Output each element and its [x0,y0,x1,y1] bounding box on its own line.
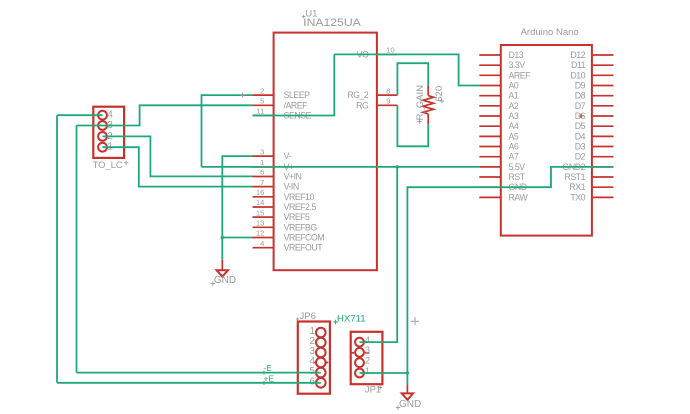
Arduino right pin D3 stub [592,146,614,148]
JP6 name anchor cross [296,318,299,321]
wire VO to A0 [334,54,479,85]
JP6 origin tick left [314,362,316,364]
svg-text:RX1: RX1 [569,182,585,192]
Arduino left pin A0 stub [479,85,501,87]
svg-text:RG_2: RG_2 [347,90,369,100]
U1 pin 15 VREF5 stub [253,216,274,218]
Arduino right pin D6 stub [592,115,614,117]
Arduino left pin A6 stub [479,146,501,148]
ground GND2 cross [396,405,400,409]
Arduino left pin A2 stub [479,105,501,107]
junction cross on SLEEP wire [240,93,245,98]
JP6 pin 4 pad [316,358,326,368]
TO_LC pin 1 pad [98,143,107,152]
wire TO_LC pin4 horizontal [57,114,103,116]
Arduino left pin RAW stub [479,196,501,198]
Arduino right pin D5 stub [592,125,614,127]
Arduino right pin D9 stub [592,85,614,87]
svg-text:2: 2 [260,86,264,95]
wire RG_2 loop upper [397,63,428,95]
TO_LC pin 4 pad [98,111,107,120]
Arduino right pin D7 stub [592,105,614,107]
JP6 pin 6 pad [316,378,326,388]
svg-text:9: 9 [386,97,390,106]
resistor name anchor cross [417,119,421,123]
wire SENSE to VO [253,54,335,115]
Arduino left pin 3.3V stub [479,64,501,66]
svg-text:GND: GND [214,275,236,286]
connector TO_LC body [93,107,124,158]
Arduino right pin D11 stub [592,64,614,66]
svg-text:VREFCOM: VREFCOM [284,233,325,243]
svg-text:SLEEP: SLEEP [284,90,310,100]
svg-text:7: 7 [260,178,264,187]
svg-text:4: 4 [260,239,264,248]
svg-text:10: 10 [386,46,394,55]
JP6 pin 2 pad [316,338,326,348]
svg-text:1: 1 [260,158,264,167]
JP1 pin 3 pad [355,348,364,357]
Arduino left pin A1 stub [479,95,501,97]
U1 pin 16 VREF10 stub [253,196,274,198]
svg-text:A3: A3 [509,111,519,121]
svg-text:RST: RST [509,172,526,182]
svg-text:D5: D5 [575,121,586,131]
svg-text:A6: A6 [509,142,519,152]
svg-text:-E: -E [264,363,273,373]
JP6 pin 5 pad [316,368,326,378]
Arduino left pin A7 stub [479,156,501,158]
net label -E anchor [262,371,266,375]
ground GND1 cross [211,281,215,285]
net label +E anchor [262,381,266,385]
JP1 origin cross [378,385,382,389]
Arduino right pin GND2 stub [592,166,614,168]
svg-text:D4: D4 [575,131,586,141]
svg-text:V-IN: V-IN [284,182,299,192]
svg-text:HX711: HX711 [337,313,366,324]
wire JP6 pin5 horizontal -E [77,372,321,374]
Arduino right pin RX1 stub [592,186,614,188]
U1 pin 3 V- stub [253,155,274,157]
svg-text:8: 8 [386,86,390,95]
svg-text:D12: D12 [570,50,585,60]
op-amp U1 body [274,33,377,271]
svg-text:Arduino Nano: Arduino Nano [521,27,579,38]
TO_LC pin 3 pad [98,121,107,130]
ground GND1 stem [221,260,223,270]
U1 pin 10 VO stub [377,53,398,55]
svg-text:16: 16 [256,188,264,197]
Arduino right pin D2 stub [592,156,614,158]
svg-text:12: 12 [256,229,264,238]
JP6 origin tick right [325,362,328,364]
JP1 pin 3 tick left [351,352,354,354]
svg-text:A7: A7 [509,152,519,162]
svg-text:VREF2.5: VREF2.5 [284,202,317,212]
Arduino left pin A3 stub [479,115,501,117]
U1 pin 7 V-IN stub [253,186,274,188]
wire TO_LC pin4 to JP6 pin6 vertical [56,115,58,383]
svg-text:TO_LC: TO_LC [93,159,123,170]
U1 pin 9 RG stub [377,104,398,106]
svg-text:3: 3 [260,147,264,156]
junction dot VREFCOM [221,236,224,239]
Arduino left pin GND stub [479,186,501,188]
svg-text:14: 14 [256,198,264,207]
svg-text:1: 1 [365,366,370,376]
svg-text:D10: D10 [570,70,585,80]
Arduino left pin A4 stub [479,125,501,127]
resistor value anchor cross [440,99,444,103]
IC module Arduino Nano body [501,45,592,236]
svg-text:D3: D3 [575,142,586,152]
svg-text:11: 11 [256,107,264,116]
svg-text:6: 6 [260,168,264,177]
svg-text:A5: A5 [509,131,519,141]
JP6 pin 1 pad [316,328,326,338]
svg-text:V+IN: V+IN [284,172,302,182]
U1 pin 11 SENSE stub [253,114,274,116]
net label HX711 anchor cross [333,320,337,324]
resistor R_GAIN lead bottom [427,114,429,124]
Arduino right pin RST1 stub [592,176,614,178]
svg-text:R_GAIN: R_GAIN [415,85,426,121]
svg-text:620: 620 [434,86,445,102]
wire 5.5V to JP1 pin4 [360,167,398,342]
U1 pin 6 V+IN stub [253,176,274,178]
wire TO_LC pin3 to JP6 pin5 vertical [76,126,78,373]
resistor R_GAIN lead top [427,85,429,95]
svg-text:A1: A1 [509,91,519,101]
svg-text:13: 13 [256,219,264,228]
JP1 pin 3 tick right [365,352,369,354]
svg-text:AREF: AREF [509,70,532,80]
svg-text:5: 5 [260,97,264,106]
wire GND2 pin stub net [407,167,613,384]
wire JP1 pin1 to GND [360,372,408,374]
svg-text:A2: A2 [509,101,519,111]
svg-text:A4: A4 [509,121,519,131]
ground GND2 stem [406,384,408,393]
svg-text:VREFOUT: VREFOUT [284,243,324,253]
svg-text:VREFBG: VREFBG [284,222,318,232]
sheet origin cross [411,317,419,325]
Arduino left pin RST stub [479,176,501,178]
U1 name anchor cross [302,15,305,18]
wire TO_LC pin1 to V-IN [103,147,253,186]
Arduino right pin D8 stub [592,95,614,97]
JP6 pin 3 pad [316,348,326,358]
svg-text:JP6: JP6 [300,311,316,322]
Arduino right pin TX0 stub [592,196,614,198]
svg-text:/AREF: /AREF [284,100,309,110]
svg-text:D2: D2 [575,152,586,162]
wire TO_LC pin2 to V+IN [103,136,253,176]
JP1 pin 1 pad [355,369,364,378]
svg-text:+E: +E [264,373,275,383]
U1 pin 13 VREFBG stub [253,226,274,228]
TO_LC pin 2 pad [98,132,107,141]
svg-text:RAW: RAW [509,192,529,202]
svg-text:D7: D7 [575,101,586,111]
Arduino right pin D4 stub [592,135,614,137]
svg-text:6: 6 [310,376,316,387]
wire SLEEP to V+ net [202,95,253,167]
connector JP6 body [298,322,330,394]
resistor R_GAIN zigzag [423,96,434,114]
svg-text:4: 4 [365,335,370,345]
svg-text:D8: D8 [575,91,586,101]
Arduino origin cross [579,114,584,119]
svg-text:D9: D9 [575,81,586,91]
svg-text:3.3V: 3.3V [509,60,526,70]
wire V+ / 5.5V supply [202,166,480,168]
ground GND1 triangle [217,270,228,276]
svg-text:2: 2 [365,356,370,366]
svg-text:D11: D11 [571,60,586,70]
wire JP6 pin6 horizontal +E [57,382,321,384]
ground GND2 triangle [402,393,413,399]
wire VREFCOM tee [222,237,252,239]
svg-text:INA125UA: INA125UA [303,17,362,29]
U1 pin 2 SLEEP stub [253,94,274,96]
Arduino right pin D12 stub [592,54,614,56]
svg-text:JP1: JP1 [365,384,381,395]
U1 pin 12 VREFCOM stub [253,237,274,239]
U1 pin 4 VREFOUT stub [253,247,274,249]
TO_LC origin cross [124,161,128,165]
svg-text:A0: A0 [509,81,519,91]
Arduino left pin 5.5V stub [479,166,501,168]
svg-text:D13: D13 [509,50,524,60]
svg-text:5.5V: 5.5V [509,162,526,172]
Arduino left pin AREF stub [479,74,501,76]
junction dot JP1 GND [406,371,409,374]
JP1 pin 4 pad [355,338,364,347]
junction dot on supply wire [396,165,399,168]
U1 pin 8 RG_2 stub [377,94,398,96]
svg-text:3: 3 [365,345,370,355]
Arduino right pin D10 stub [592,74,614,76]
U1 pin 14 VREF2.5 stub [253,206,274,208]
U1 pin 5 /AREF stub [253,104,274,106]
wire /AREF to TO_LC pin3 [77,105,253,125]
Arduino left pin A5 stub [479,135,501,137]
svg-text:VREF5: VREF5 [284,212,310,222]
svg-text:RG: RG [356,100,369,110]
Arduino left pin D13 stub [479,54,501,56]
U1 pin 1 V+ stub [253,166,274,168]
svg-text:VREF10: VREF10 [284,192,315,202]
connector JP1 body [351,332,383,384]
wire V- to GND1 [222,156,252,260]
svg-text:RST1: RST1 [565,172,586,182]
svg-text:15: 15 [256,208,264,217]
svg-text:TX0: TX0 [570,192,585,202]
JP1 pin 2 pad [355,358,364,367]
wire RG loop lower [397,105,428,146]
svg-text:GND: GND [399,399,421,410]
svg-text:V-: V- [284,151,292,161]
